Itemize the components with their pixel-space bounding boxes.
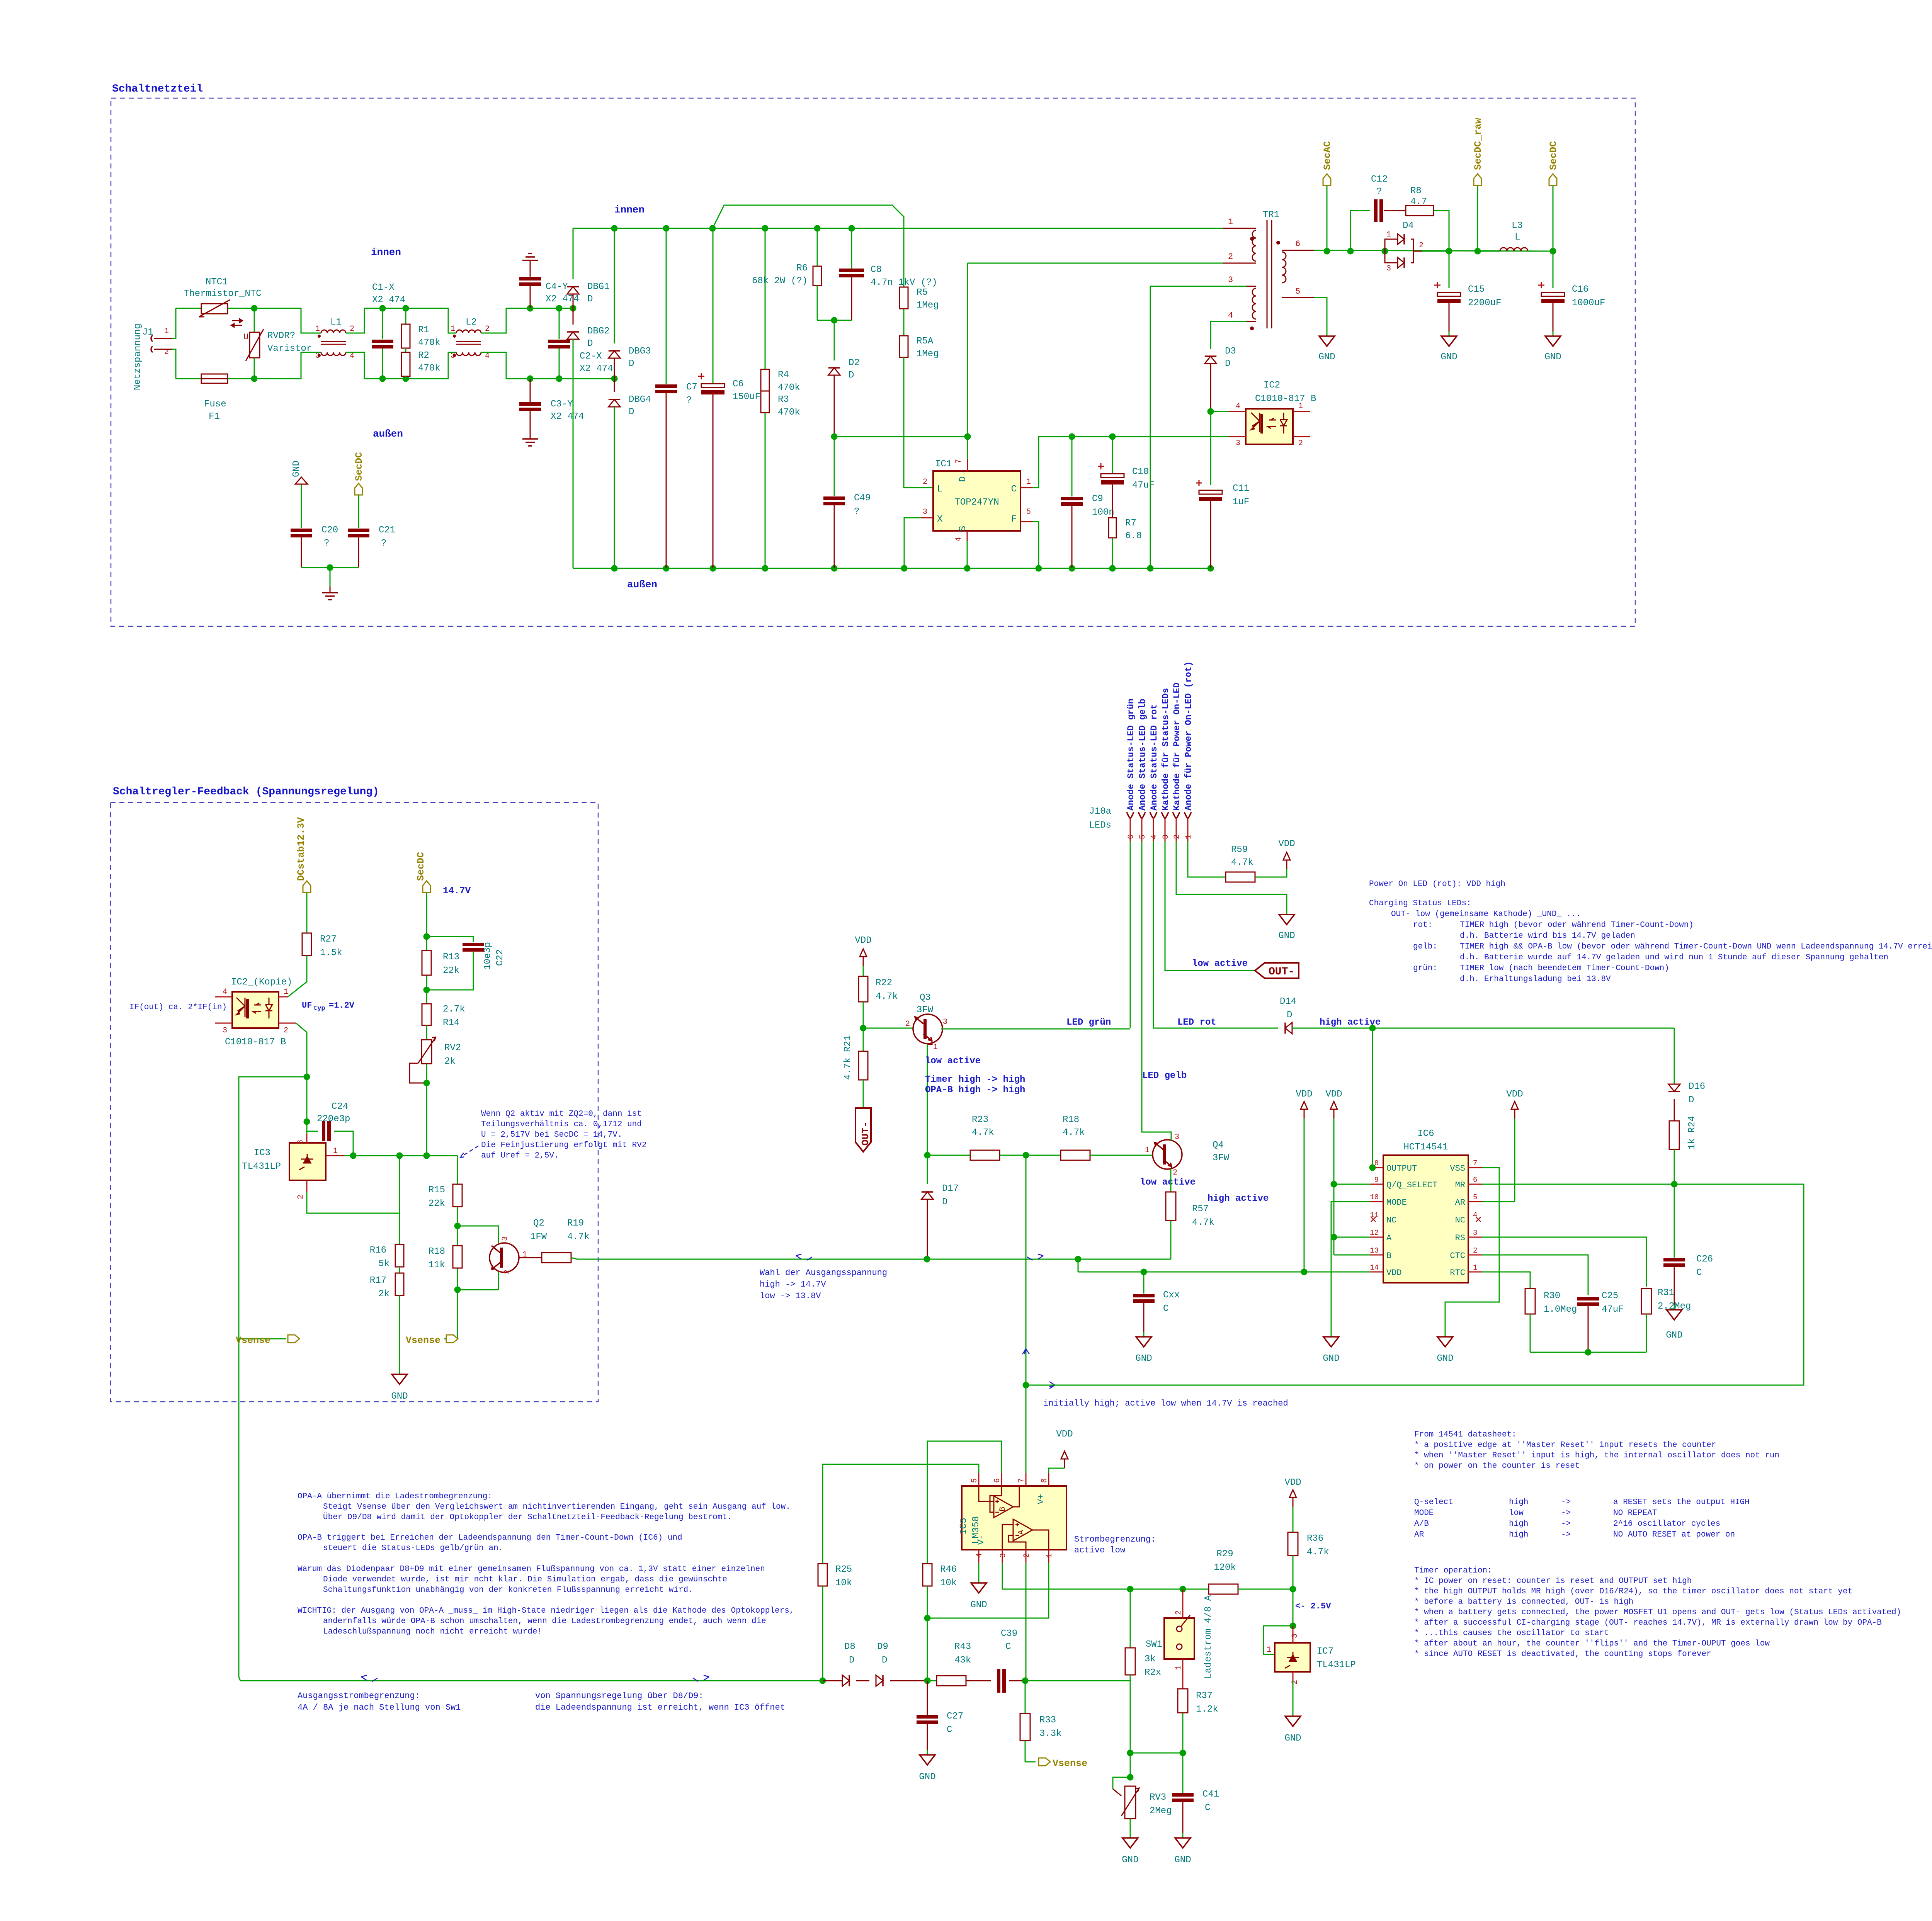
svg-text:B: B xyxy=(1386,1251,1391,1261)
svg-text:2: 2 xyxy=(1173,1168,1177,1177)
svg-text:Die Feinjustierung erfolgt mit: Die Feinjustierung erfolgt mit RV2 xyxy=(481,1141,646,1150)
svg-text:->: -> xyxy=(1561,1509,1571,1518)
svg-text:D: D xyxy=(1689,1095,1694,1105)
svg-text:7: 7 xyxy=(1017,1478,1026,1483)
pin3 wire to OUT- flag xyxy=(1165,841,1255,971)
node initially high xyxy=(1023,1382,1029,1389)
wire to DBG node xyxy=(559,308,573,309)
svg-text:R2x: R2x xyxy=(1145,1668,1161,1678)
svg-text:C: C xyxy=(1005,1642,1011,1652)
svg-text:L3: L3 xyxy=(1512,221,1523,231)
svg-text:GND: GND xyxy=(1278,931,1295,941)
control net C9 C10 xyxy=(1069,433,1075,440)
IC5 pin8 VDD xyxy=(1048,1473,1049,1486)
svg-text:22k: 22k xyxy=(429,1198,445,1209)
node C3-Y xyxy=(527,376,534,382)
capacitor C21 xyxy=(358,495,359,528)
svg-text:VDD: VDD xyxy=(1056,1429,1073,1440)
svg-text:TL431LP: TL431LP xyxy=(242,1161,281,1172)
svg-text:1: 1 xyxy=(333,1147,338,1156)
svg-text:IC6: IC6 xyxy=(1417,1129,1434,1139)
svg-text:D8: D8 xyxy=(844,1642,855,1652)
svg-text:SecDC: SecDC xyxy=(354,452,365,481)
svg-text:D9: D9 xyxy=(877,1642,888,1652)
diode DBG1 xyxy=(573,228,574,279)
pin stub X and wire xyxy=(921,517,933,518)
wire to L2 xyxy=(406,308,456,333)
svg-text:OUT- low (gemeinsame Kathode): OUT- low (gemeinsame Kathode) _UND_ ... xyxy=(1391,910,1581,919)
svg-text:GND: GND xyxy=(1122,1855,1138,1865)
capacitor C11 xyxy=(1210,411,1211,485)
svg-text:D2: D2 xyxy=(849,358,860,368)
svg-text:3.3k: 3.3k xyxy=(1039,1729,1062,1739)
svg-text:2: 2 xyxy=(485,325,490,333)
svg-text:47uF: 47uF xyxy=(1132,480,1155,491)
node R13 bottom xyxy=(423,987,430,993)
IC5 pin2 wire xyxy=(1026,1550,1027,1563)
capacitor C7 xyxy=(666,228,667,384)
svg-text:C22: C22 xyxy=(495,949,505,966)
diode D16 xyxy=(1674,1028,1675,1084)
node R13 top xyxy=(423,933,430,940)
svg-text:2: 2 xyxy=(1174,1610,1183,1615)
svg-text:8: 8 xyxy=(1040,1478,1049,1483)
svg-text:C8: C8 xyxy=(871,265,882,275)
resistor R8 xyxy=(1384,210,1406,211)
svg-text:5k: 5k xyxy=(378,1259,389,1269)
svg-text:d.h. Erhaltungsladung bei 13.8: d.h. Erhaltungsladung bei 13.8V xyxy=(1460,975,1611,984)
svg-text:Schaltungsfunktion unabhängig: Schaltungsfunktion unabhängig von der ko… xyxy=(323,1586,693,1595)
transistor Q4 xyxy=(1153,1140,1182,1169)
RC bottom row xyxy=(1530,1352,1646,1353)
svg-text:X2 474: X2 474 xyxy=(551,411,584,422)
svg-text:AR: AR xyxy=(1414,1530,1424,1539)
svg-text:?: ? xyxy=(324,538,329,549)
svg-text:Thermistor_NTC: Thermistor_NTC xyxy=(184,289,262,299)
clamp node xyxy=(817,320,852,321)
capacitor C26 xyxy=(1674,1184,1675,1258)
svg-text:GND: GND xyxy=(970,1600,987,1610)
svg-text:GND: GND xyxy=(291,461,302,477)
svg-text:RV2: RV2 xyxy=(444,1043,461,1053)
wire to Q2 xyxy=(457,1226,498,1243)
resistor R23 xyxy=(927,1155,970,1156)
wire TR1 pin3 xyxy=(1150,286,1247,568)
svg-text:NO AUTO RESET at power on: NO AUTO RESET at power on xyxy=(1613,1530,1735,1539)
svg-text:3: 3 xyxy=(1291,1634,1299,1638)
flag OUT- Q3 xyxy=(863,1080,864,1108)
wire J1 to filter xyxy=(172,308,176,338)
R15 corner xyxy=(457,1156,458,1185)
svg-text:6: 6 xyxy=(1295,239,1300,249)
svg-text:V+: V+ xyxy=(1036,1494,1046,1504)
svg-text:470k: 470k xyxy=(418,338,440,348)
resistor R36 xyxy=(1293,1491,1294,1507)
diode DBG2 xyxy=(573,308,574,325)
capacitor C49 xyxy=(834,437,835,496)
svg-text:C24: C24 xyxy=(332,1102,348,1112)
svg-text:3: 3 xyxy=(223,1026,227,1035)
Q3 emitter to LED gruen wire xyxy=(941,1028,1130,1030)
node D17 xyxy=(924,1152,931,1159)
svg-text:U: U xyxy=(243,332,248,342)
flag Vsense left xyxy=(239,1338,286,1340)
svg-text:3: 3 xyxy=(943,1018,947,1027)
diode D17 xyxy=(927,1155,928,1184)
svg-text:* ...this causes the oscillato: * ...this causes the oscillator to start xyxy=(1414,1629,1609,1638)
svg-text:2: 2 xyxy=(296,1195,305,1199)
svg-text:R36: R36 xyxy=(1307,1533,1323,1544)
resistor R27 xyxy=(306,892,308,933)
svg-text:a RESET sets the output HIGH: a RESET sets the output HIGH xyxy=(1613,1498,1750,1507)
svg-text:Q-select: Q-select xyxy=(1414,1498,1453,1507)
svg-text:SecDC_raw: SecDC_raw xyxy=(1473,118,1484,170)
wire VDD pin14 row xyxy=(1304,1119,1305,1272)
svg-text:Strombegrenzung:: Strombegrenzung: xyxy=(1074,1535,1156,1544)
svg-text:10k: 10k xyxy=(940,1578,957,1588)
svg-text:typ: typ xyxy=(313,1005,325,1012)
capacitor C12 xyxy=(1350,211,1370,251)
wire to R1R2 xyxy=(383,308,406,309)
node OPA junction xyxy=(1023,1152,1029,1159)
svg-text:GND: GND xyxy=(1174,1855,1191,1865)
svg-text:100n: 100n xyxy=(1092,507,1114,518)
capacitor C20 xyxy=(301,484,302,489)
svg-text:Kathode für Power On-LED: Kathode für Power On-LED xyxy=(1172,683,1182,811)
svg-text:R23: R23 xyxy=(972,1115,988,1125)
svg-text:high active: high active xyxy=(1207,1193,1269,1204)
svg-text:R18: R18 xyxy=(429,1246,445,1257)
svg-text:C41: C41 xyxy=(1202,1789,1219,1800)
svg-text:C: C xyxy=(1696,1268,1702,1278)
svg-text:R7: R7 xyxy=(1125,518,1136,529)
svg-text:C7: C7 xyxy=(686,382,697,393)
svg-text:5: 5 xyxy=(1295,287,1300,296)
svg-text:X2 474: X2 474 xyxy=(546,294,579,304)
resistor R37 xyxy=(1178,1689,1188,1713)
svg-text:* when ''Master Reset'' input: * when ''Master Reset'' input is high, t… xyxy=(1414,1451,1779,1460)
svg-text:?: ? xyxy=(854,507,859,517)
svg-text:F: F xyxy=(1011,514,1017,525)
svg-text:2^16 oscillator cycles: 2^16 oscillator cycles xyxy=(1613,1520,1720,1528)
flag Vsense bottom xyxy=(1039,1758,1050,1766)
svg-text:1: 1 xyxy=(315,325,320,333)
svg-text:Timer operation:: Timer operation: xyxy=(1414,1566,1492,1575)
svg-text:LED rot: LED rot xyxy=(1177,1017,1216,1028)
svg-text:2: 2 xyxy=(1291,1680,1299,1685)
svg-text:A/B: A/B xyxy=(1414,1520,1429,1528)
svg-text:high: high xyxy=(1509,1520,1528,1528)
svg-text:5: 5 xyxy=(1138,835,1147,839)
svg-text:R17: R17 xyxy=(370,1275,386,1286)
svg-text:Teilungsverhältnis ca. 0,1712: Teilungsverhältnis ca. 0,1712 und xyxy=(481,1120,642,1129)
RV2 wiper return xyxy=(410,1063,427,1083)
svg-text:3: 3 xyxy=(1473,1229,1477,1237)
svg-text:4.7k: 4.7k xyxy=(1192,1217,1214,1228)
capacitor Cxx xyxy=(1143,1272,1145,1294)
svg-text:5: 5 xyxy=(970,1478,979,1483)
svg-text:Q2: Q2 xyxy=(533,1218,544,1229)
svg-text:R31: R31 xyxy=(1658,1288,1674,1298)
svg-text:Q4: Q4 xyxy=(1213,1140,1224,1151)
svg-text:1: 1 xyxy=(284,988,288,996)
svg-text:OUT-: OUT- xyxy=(860,1122,871,1146)
node Q2 collector xyxy=(454,1223,461,1229)
TR1 core xyxy=(1267,220,1268,328)
svg-text:6: 6 xyxy=(993,1478,1002,1483)
svg-text:d.h. Batterie wird bis 14.7V g: d.h. Batterie wird bis 14.7V geladen xyxy=(1460,932,1635,940)
resistor R2 xyxy=(405,348,406,352)
svg-text:high: high xyxy=(1509,1498,1528,1507)
svg-text:D14: D14 xyxy=(1280,996,1296,1007)
svg-text:VDD: VDD xyxy=(1506,1089,1523,1100)
svg-text:->: -> xyxy=(1561,1530,1571,1539)
node C1-X bottom xyxy=(379,376,386,382)
svg-text:470k: 470k xyxy=(418,363,440,374)
diode D2 xyxy=(834,320,835,360)
svg-text:1: 1 xyxy=(451,325,455,333)
node opto anode xyxy=(1207,408,1214,415)
svg-text:R46: R46 xyxy=(940,1564,957,1575)
vertical to VDD row xyxy=(1078,1259,1079,1272)
node C16 xyxy=(1550,248,1556,255)
svg-text:D: D xyxy=(942,1197,947,1207)
svg-text:andernfalls würde OPA-B schon: andernfalls würde OPA-B schon umschalten… xyxy=(323,1617,766,1626)
svg-text:2: 2 xyxy=(1228,252,1233,262)
resistor R57 xyxy=(1170,1169,1172,1192)
wire R17 gnd xyxy=(399,1295,400,1370)
svg-text:R29: R29 xyxy=(1216,1549,1233,1559)
svg-text:X: X xyxy=(937,514,942,525)
VDD arrows IC6 xyxy=(1304,1103,1305,1119)
svg-text:CTC: CTC xyxy=(1450,1251,1465,1261)
svg-text:D3: D3 xyxy=(1225,346,1236,357)
svg-text:grün:: grün: xyxy=(1413,964,1437,973)
svg-text:SecAC: SecAC xyxy=(1322,141,1333,170)
wire to Vsense right xyxy=(444,1290,457,1339)
pin stub F and wire xyxy=(1020,521,1032,522)
svg-text:NC: NC xyxy=(1455,1215,1465,1225)
wire D pin to TR1 pin2 xyxy=(967,263,968,459)
svg-text:R5A: R5A xyxy=(917,336,934,347)
svg-text:Über D9/D8 wird damit der Opto: Über D9/D8 wird damit der Optokoppler de… xyxy=(323,1513,732,1522)
svg-text:low: low xyxy=(1509,1509,1524,1518)
svg-text:22k: 22k xyxy=(443,966,459,976)
svg-text:NO REPEAT: NO REPEAT xyxy=(1613,1509,1657,1518)
IC5 pin5 wire xyxy=(978,1473,980,1486)
wire Qselect A B to VDD xyxy=(1333,1119,1335,1255)
TR1 primary 2 xyxy=(1247,286,1256,287)
resistor R13 xyxy=(422,950,431,975)
svg-text:MR: MR xyxy=(1455,1180,1465,1190)
svg-text:F1: F1 xyxy=(209,411,220,422)
node R29 R36 xyxy=(1290,1586,1296,1593)
svg-text:47uF: 47uF xyxy=(1602,1304,1624,1315)
svg-text:GND: GND xyxy=(1135,1353,1152,1364)
svg-text:4.7k: 4.7k xyxy=(567,1232,590,1242)
svg-text:?: ? xyxy=(686,395,692,406)
svg-text:low -> 13.8V: low -> 13.8V xyxy=(760,1291,821,1301)
wire drain net xyxy=(834,436,968,437)
svg-text:3: 3 xyxy=(999,1553,1008,1558)
svg-text:NC: NC xyxy=(1386,1215,1396,1225)
svg-text:?: ? xyxy=(381,538,386,549)
svg-text:2: 2 xyxy=(1298,439,1303,448)
svg-text:R13: R13 xyxy=(443,952,459,962)
svg-text:11k: 11k xyxy=(429,1260,445,1270)
svg-text:6: 6 xyxy=(1127,835,1136,839)
IC5 pin1 wire xyxy=(1048,1550,1049,1563)
svg-text:Warum das Diodenpaar D8+D9 mi: Warum das Diodenpaar D8+D9 mit einer gem… xyxy=(298,1565,765,1574)
svg-text:3FW: 3FW xyxy=(917,1005,934,1015)
svg-text:470k: 470k xyxy=(778,382,800,393)
svg-text:DBG1: DBG1 xyxy=(587,282,610,292)
svg-text:VDD: VDD xyxy=(1296,1089,1312,1100)
node C4-Y xyxy=(527,305,534,312)
wire R19 out xyxy=(571,1258,577,1259)
wire L2 to right nodes xyxy=(481,308,530,333)
resistor R15 xyxy=(453,1184,462,1207)
MR feedback row xyxy=(1026,1184,1804,1385)
svg-text:4.7k: 4.7k xyxy=(972,1127,994,1138)
svg-text:1: 1 xyxy=(1174,1665,1183,1670)
svg-text:1k R24: 1k R24 xyxy=(1687,1116,1697,1149)
svg-text:Diode verwendet wurde, ist mir: Diode verwendet wurde, ist mir ncht klar… xyxy=(323,1575,727,1584)
svg-text:R8: R8 xyxy=(1410,186,1422,196)
wire Q4 emitter row to R57 xyxy=(1148,1259,1171,1260)
svg-text:Ausgangsstrombegrenzung:: Ausgangsstrombegrenzung: xyxy=(298,1691,420,1701)
svg-text:OPA-B high -> high: OPA-B high -> high xyxy=(925,1085,1025,1095)
svg-text:J10a: J10a xyxy=(1089,806,1111,817)
svg-text:1: 1 xyxy=(1145,1146,1150,1155)
svg-text:10: 10 xyxy=(1370,1193,1379,1202)
diode D3 xyxy=(1205,356,1216,364)
pin6 wire LED gruen xyxy=(1130,841,1131,1028)
svg-text:außen: außen xyxy=(373,428,403,440)
capacitor C41 xyxy=(1182,1753,1184,1793)
svg-text:* after about an hour, the cou: * after about an hour, the counter ''fli… xyxy=(1414,1639,1770,1648)
resistor R7 xyxy=(1112,484,1113,518)
svg-text:R5: R5 xyxy=(917,287,928,298)
svg-text:4: 4 xyxy=(954,537,963,542)
svg-text:10e3p: 10e3p xyxy=(483,942,493,970)
svg-text:4.7k: 4.7k xyxy=(876,991,898,1002)
svg-text:3: 3 xyxy=(296,1140,305,1144)
svg-text:4.7n 1kV (?): 4.7n 1kV (?) xyxy=(871,277,937,288)
svg-text:gelb:: gelb: xyxy=(1413,942,1437,951)
svg-text:1.0Meg: 1.0Meg xyxy=(1544,1304,1577,1315)
svg-text:OUT-: OUT- xyxy=(1269,966,1294,978)
svg-text:low active: low active xyxy=(1192,959,1248,969)
svg-text:innen: innen xyxy=(371,246,401,258)
wire TR1 pin2 horizontal xyxy=(968,263,1223,264)
svg-text:L1: L1 xyxy=(330,317,342,328)
svg-text:GND: GND xyxy=(919,1772,935,1782)
svg-text:high -> 14.7V: high -> 14.7V xyxy=(760,1280,826,1289)
svg-text:TR1: TR1 xyxy=(1263,210,1279,220)
pin4 wire LED rot xyxy=(1153,841,1177,1028)
svg-text:GND: GND xyxy=(1440,352,1457,362)
svg-text:1: 1 xyxy=(1386,230,1391,239)
flag OUT- kathode xyxy=(1255,963,1299,978)
svg-text:D: D xyxy=(587,338,593,349)
svg-text:14.7V: 14.7V xyxy=(443,886,471,896)
svg-text:C3-Y: C3-Y xyxy=(551,399,573,410)
svg-text:UF: UF xyxy=(302,1001,312,1010)
pin stub S and wire xyxy=(967,531,968,541)
svg-text:MODE: MODE xyxy=(1386,1198,1407,1207)
svg-text:R37: R37 xyxy=(1196,1691,1213,1701)
TR1 secondary xyxy=(1282,252,1286,283)
svg-text:2.7k: 2.7k xyxy=(443,1004,465,1015)
svg-text:Vsense: Vsense xyxy=(1053,1758,1087,1769)
svg-text:steuert die Status-LEDs gelb/g: steuert die Status-LEDs gelb/grün an. xyxy=(323,1544,503,1553)
svg-text:150uF: 150uF xyxy=(733,392,760,402)
svg-text:GND: GND xyxy=(1544,352,1561,362)
svg-text:VDD: VDD xyxy=(1386,1268,1402,1278)
svg-text:GND: GND xyxy=(1284,1733,1301,1744)
pin1 wire to R59 xyxy=(1188,841,1226,877)
svg-text:initially high; active low whe: initially high; active low when 14.7V is… xyxy=(1043,1399,1288,1408)
thermistor NTC1 xyxy=(176,308,201,309)
transistor Q2 xyxy=(490,1243,519,1272)
svg-text:TL431LP: TL431LP xyxy=(1317,1660,1356,1670)
svg-text:R43: R43 xyxy=(954,1642,971,1652)
svg-text:LED grün: LED grün xyxy=(1066,1017,1111,1028)
svg-text:die Ladeendspannung ist erreic: die Ladeendspannung ist erreicht, wenn I… xyxy=(535,1703,785,1712)
bypass line to R5 xyxy=(713,205,904,290)
svg-text:C20: C20 xyxy=(321,525,338,535)
svg-text:D: D xyxy=(958,476,968,482)
wire Vss to GND xyxy=(1445,1168,1499,1332)
svg-text:VSS: VSS xyxy=(1450,1164,1465,1173)
IC7 TL431LP xyxy=(1293,1589,1294,1626)
svg-text:Vsense: Vsense xyxy=(406,1335,440,1346)
svg-text:5: 5 xyxy=(1026,508,1031,517)
svg-text:12: 12 xyxy=(1370,1229,1379,1237)
svg-text:Wahl der Ausgangsspannung: Wahl der Ausgangsspannung xyxy=(760,1268,887,1278)
svg-text:OUTPUT: OUTPUT xyxy=(1386,1164,1417,1173)
svg-text:IC2_(Kopie): IC2_(Kopie) xyxy=(231,977,292,988)
svg-text:R1: R1 xyxy=(418,325,429,335)
svg-text:Cxx: Cxx xyxy=(1163,1290,1180,1300)
svg-text:2: 2 xyxy=(1419,241,1423,250)
svg-text:Q3: Q3 xyxy=(920,993,931,1003)
resistor R46b xyxy=(923,1564,932,1586)
node high active xyxy=(1369,1025,1376,1032)
svg-text:HCT14541: HCT14541 xyxy=(1403,1142,1448,1153)
svg-text:VDD: VDD xyxy=(1278,839,1295,849)
svg-text:R14: R14 xyxy=(443,1018,459,1028)
svg-text:D17: D17 xyxy=(942,1183,959,1194)
svg-text:Q/Q_SELECT: Q/Q_SELECT xyxy=(1386,1180,1437,1190)
resistor R22 xyxy=(863,966,864,976)
bottom rail aussen xyxy=(573,568,1211,569)
svg-text:X2 474: X2 474 xyxy=(372,295,405,305)
svg-text:R27: R27 xyxy=(320,934,337,945)
resistor R2x xyxy=(1130,1589,1131,1648)
capacitor C22 xyxy=(427,937,473,942)
svg-text:B: B xyxy=(998,1507,1007,1511)
svg-text:C16: C16 xyxy=(1572,284,1588,295)
power flag VDD Q3 xyxy=(863,950,864,966)
pin2 wire to GND xyxy=(1176,841,1287,910)
IC5 pin4 GND xyxy=(978,1550,980,1563)
svg-text:auf Uref = 2,5V.: auf Uref = 2,5V. xyxy=(481,1151,559,1160)
wire node to L1 xyxy=(254,308,321,333)
capacitor C9 xyxy=(1071,437,1073,496)
svg-text:IC1: IC1 xyxy=(935,459,952,469)
